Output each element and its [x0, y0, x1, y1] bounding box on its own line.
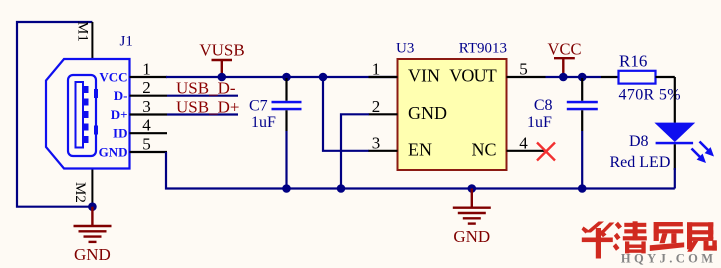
svg-text:VIN: VIN — [408, 66, 440, 86]
junction C8/ground rail — [578, 184, 587, 193]
ground symbol at J1 — [74, 207, 112, 242]
junction VUSB/rail — [218, 73, 227, 82]
junction C8/rail — [578, 73, 587, 82]
svg-text:D-: D- — [114, 88, 128, 103]
svg-text:EN: EN — [408, 139, 432, 159]
svg-text:R16: R16 — [619, 52, 647, 71]
svg-text:RT9013: RT9013 — [459, 41, 507, 57]
svg-text:5: 5 — [519, 60, 528, 79]
pin 4 of J1 — [130, 132, 168, 134]
pin M2 of J1 — [91, 169, 93, 208]
wire: net USB_D- — [167, 95, 238, 97]
svg-text:VCC: VCC — [548, 39, 582, 58]
wire: U3 GND to ground rail — [341, 114, 369, 188]
svg-text:NC: NC — [471, 139, 496, 159]
svg-text:3: 3 — [372, 133, 381, 152]
capacitor C8 — [581, 78, 583, 101]
svg-text:D8: D8 — [629, 133, 649, 150]
pin 1 of J1 — [130, 76, 168, 78]
svg-text:ID: ID — [113, 126, 127, 141]
svg-text:M2: M2 — [72, 182, 88, 203]
svg-text:USB_D+: USB_D+ — [176, 97, 239, 116]
wire: R16 to LED — [674, 77, 676, 123]
connector J1 body — [46, 59, 130, 169]
svg-text:VUSB: VUSB — [199, 41, 244, 60]
svg-text:1: 1 — [142, 60, 151, 79]
svg-text:1uF: 1uF — [251, 114, 276, 131]
svg-text:USB_D-: USB_D- — [176, 79, 236, 98]
svg-text:1uF: 1uF — [527, 114, 552, 131]
USB receptacle icon — [68, 75, 96, 156]
junction EN drop/rail — [319, 73, 328, 82]
capacitor C7 — [285, 78, 287, 101]
svg-text:2: 2 — [372, 97, 381, 116]
pin 3 of U3 — [369, 150, 398, 152]
no-connect X on pin 4 — [537, 143, 555, 161]
svg-text:1: 1 — [372, 60, 381, 79]
wire: ground rail (bottom) — [166, 152, 675, 189]
svg-text:Red LED: Red LED — [610, 154, 671, 171]
pin 2 of J1 — [130, 95, 168, 97]
wire: mounting loop M1-M2 — [17, 22, 92, 207]
logo char hua — [582, 222, 615, 259]
wire: VUSB rail (J1 pin1 to U3 VIN) — [166, 76, 398, 78]
svg-text:4: 4 — [519, 133, 528, 152]
svg-text:GND: GND — [99, 145, 128, 160]
svg-text:4: 4 — [142, 116, 151, 135]
wire: net USB_D+ — [167, 113, 238, 115]
logo char jian — [687, 222, 717, 252]
LED emission arrows — [692, 142, 709, 158]
svg-text:D+: D+ — [111, 107, 128, 122]
ground symbol at U3 — [453, 189, 491, 224]
svg-text:J1: J1 — [120, 34, 133, 50]
svg-text:GND: GND — [408, 103, 447, 123]
svg-text:GND: GND — [74, 245, 111, 264]
logo char yuan — [650, 222, 684, 251]
wire: LED cathode to ground rail — [674, 168, 676, 189]
pin M1 of J1 — [91, 22, 93, 59]
svg-text:VCC: VCC — [99, 70, 127, 85]
pin 2 of U3 — [369, 113, 398, 115]
IC U3 RT9013 body — [398, 59, 507, 170]
pin 1 of U3 — [369, 76, 398, 78]
junction U3 GND/ground rail — [337, 184, 346, 193]
junction at M2 — [88, 202, 97, 211]
junction C7/ground rail — [282, 184, 291, 193]
wire: EN enable drop — [323, 77, 369, 151]
svg-text:VOUT: VOUT — [449, 66, 497, 86]
junction VCC/rail — [559, 73, 568, 82]
svg-text:470R 5%: 470R 5% — [619, 87, 681, 104]
junction ground symbol/rail — [468, 184, 477, 193]
svg-text:2: 2 — [142, 78, 151, 97]
svg-text:M1: M1 — [75, 21, 91, 42]
svg-text:GND: GND — [453, 227, 490, 246]
wire: VOUT rail — [546, 76, 602, 78]
pin 5 of U3 — [507, 76, 546, 78]
svg-text:3: 3 — [142, 97, 151, 116]
logo: Hua Qing Yuan Jian (drawn glyphs) — [582, 221, 717, 258]
pin 3 of J1 — [130, 113, 168, 115]
logo char qing — [613, 221, 647, 253]
J1 pin name labels — [99, 70, 128, 160]
svg-text:5: 5 — [142, 135, 151, 154]
junction C7/rail — [282, 73, 291, 82]
pin 5 of J1 — [130, 151, 168, 153]
svg-text:U3: U3 — [396, 41, 414, 57]
svg-text:HQYJ.COM: HQYJ.COM — [621, 252, 717, 266]
pin 4 of U3 — [507, 150, 546, 152]
svg-text:C8: C8 — [534, 97, 553, 114]
resistor R16 — [601, 76, 619, 78]
LED D8 — [654, 123, 695, 142]
svg-text:C7: C7 — [249, 98, 268, 115]
